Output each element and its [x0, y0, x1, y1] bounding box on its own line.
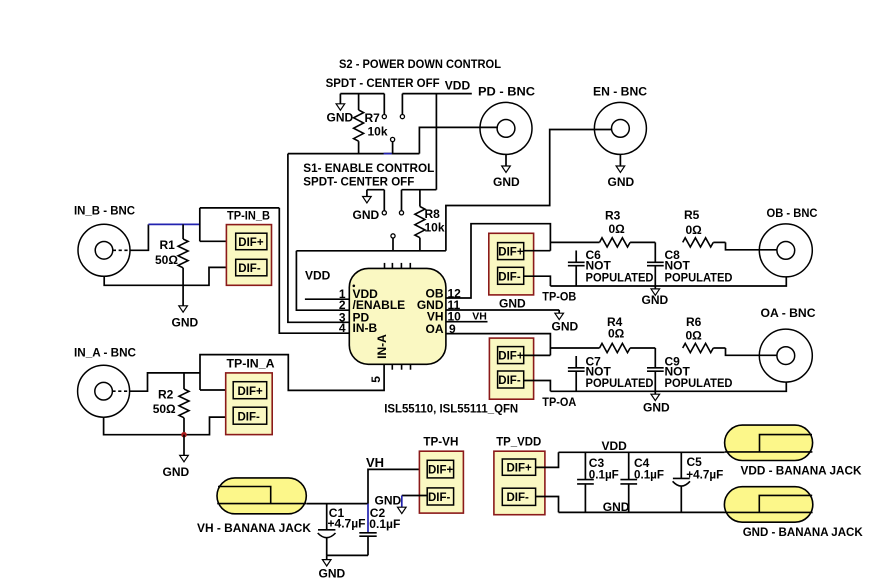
wire IN_A bottom return — [104, 417, 234, 435]
svg-text:OB - BNC: OB - BNC — [767, 206, 818, 220]
resistor R2 — [153, 373, 189, 435]
svg-text:10k: 10k — [368, 124, 388, 138]
wire pin9 OA — [446, 334, 551, 356]
svg-text:R7: R7 — [365, 111, 381, 125]
svg-text:R2: R2 — [158, 387, 174, 401]
svg-text:TP_VDD: TP_VDD — [496, 437, 541, 449]
svg-text:OA - BNC: OA - BNC — [761, 306, 816, 320]
svg-text:DIF-: DIF- — [238, 263, 261, 275]
svg-text:0Ω: 0Ω — [686, 223, 703, 237]
resistor R5 — [683, 208, 726, 247]
svg-text:VDD: VDD — [445, 79, 471, 93]
wire DIF- link (TP-OB) — [524, 276, 551, 286]
wire OB bottom return — [550, 277, 786, 286]
wire PD net horizontal — [288, 153, 420, 155]
wire IN_B center dashed — [113, 249, 130, 251]
resistor R4 — [550, 315, 655, 353]
switch S2 — [382, 94, 404, 154]
svg-text:S2 - POWER DOWN CONTROL: S2 - POWER DOWN CONTROL — [339, 57, 501, 71]
capacitor C6 — [568, 248, 654, 286]
svg-text:5: 5 — [369, 376, 383, 383]
svg-text:R1: R1 — [160, 238, 176, 252]
wire DIF+ link (TP_VDD) — [536, 452, 559, 467]
resistor R3 — [550, 209, 655, 247]
svg-text:IN-A: IN-A — [375, 334, 389, 359]
capacitor C9 — [647, 348, 733, 391]
svg-text:DIF+: DIF+ — [498, 247, 524, 259]
testpoint TP-VH — [419, 436, 463, 513]
svg-text:EN - BNC: EN - BNC — [593, 85, 647, 99]
wire pin12 OB loop — [446, 224, 551, 298]
svg-text:GND: GND — [642, 293, 669, 307]
svg-text:GND: GND — [163, 465, 190, 479]
svg-text:IN_B - BNC: IN_B - BNC — [74, 204, 135, 218]
svg-text:DIF-: DIF- — [507, 492, 530, 504]
svg-text:R5: R5 — [684, 208, 700, 222]
svg-text:DIF+: DIF+ — [507, 463, 533, 475]
wire IN_B top link — [200, 207, 279, 209]
capacitor C3 — [577, 452, 619, 512]
ground TP-VH DIF- — [375, 493, 407, 513]
svg-text:DIF-: DIF- — [428, 492, 451, 504]
ground EN BNC — [608, 154, 635, 189]
svg-text:DIF-: DIF- — [498, 375, 521, 387]
svg-text:DIF+: DIF+ — [238, 386, 264, 398]
svg-text:POPULATED: POPULATED — [665, 270, 733, 284]
wire R5 to OB BNC — [726, 242, 778, 249]
junction node IN_A — [181, 432, 187, 438]
svg-text:GND: GND — [327, 111, 354, 125]
ground C9 — [643, 391, 670, 414]
svg-text:0Ω: 0Ω — [609, 222, 626, 236]
wire DIF+ link (TP-OA) — [524, 354, 551, 356]
wire pin2 ENABLE — [296, 251, 349, 310]
op-amp U1 ISL55110 body — [349, 268, 446, 364]
wire GND rail (bottom) — [559, 511, 725, 513]
svg-text:GND: GND — [499, 296, 526, 310]
pin ticks bottom of U1 — [392, 364, 410, 369]
resistor R6 — [683, 315, 726, 353]
svg-text:GND: GND — [603, 500, 630, 514]
svg-text:0Ω: 0Ω — [686, 329, 703, 343]
wire pin3 PD — [288, 154, 349, 323]
ground IN_A — [163, 435, 190, 479]
wire pin4 IN-B — [279, 208, 349, 333]
resistor R1 — [155, 224, 188, 285]
connector EN - BNC — [593, 85, 647, 155]
svg-text:TP-IN_B: TP-IN_B — [227, 210, 270, 222]
wire pin10 VH stub — [446, 321, 488, 323]
svg-text:VH - BANANA JACK: VH - BANANA JACK — [197, 521, 311, 535]
svg-text:ISL55110, ISL55111_QFN: ISL55110, ISL55111_QFN — [384, 401, 518, 415]
svg-text:GND - BANANA JACK: GND - BANANA JACK — [743, 525, 863, 539]
wire DIF+ link (TP-IN_A) — [200, 389, 233, 391]
testpoint TP-OB — [489, 233, 577, 303]
wire EN net — [446, 130, 612, 251]
resistor R8 — [415, 190, 445, 251]
wire PD to BNC — [419, 127, 498, 153]
ground pin11 arrow — [552, 310, 579, 333]
ground PD BNC — [493, 154, 520, 189]
wire R6 to OA BNC — [726, 348, 778, 355]
svg-text:GND: GND — [319, 567, 346, 581]
svg-text:GND: GND — [375, 493, 402, 507]
svg-text:IN-B: IN-B — [353, 321, 378, 335]
testpoint TP_VDD — [494, 437, 545, 515]
capacitor C7 — [568, 354, 654, 391]
ground C1 C2 — [319, 555, 346, 580]
svg-text:TP-VH: TP-VH — [423, 436, 458, 448]
svg-text:VDD: VDD — [602, 439, 628, 453]
wire pin11 GND stub — [446, 309, 559, 311]
wire IN_B node vertical — [199, 208, 201, 241]
svg-text:R6: R6 — [686, 315, 702, 329]
wire DIF+ link (TP-OB) — [524, 250, 551, 252]
svg-text:TP-IN_A: TP-IN_A — [227, 359, 275, 371]
svg-text:0Ω: 0Ω — [608, 327, 625, 341]
banana jack VH — [197, 478, 311, 535]
svg-text:SPDT - CENTER OFF: SPDT - CENTER OFF — [326, 76, 440, 90]
svg-text:10k: 10k — [425, 221, 445, 235]
svg-text:POPULATED: POPULATED — [586, 376, 654, 390]
svg-text:VDD: VDD — [305, 269, 331, 283]
wire DIF+ link (TP-IN_B) — [200, 240, 236, 242]
wire blue tick on PD net — [384, 153, 392, 155]
svg-text:DIF+: DIF+ — [238, 237, 264, 249]
wire GND bus of S2 — [340, 93, 384, 95]
svg-text:DIF+: DIF+ — [498, 351, 524, 363]
capacitor C1 polarized — [318, 504, 366, 556]
ground IN_B — [172, 285, 199, 329]
svg-text:0.1µF: 0.1µF — [634, 467, 664, 481]
svg-text:DIF-: DIF- — [498, 271, 521, 283]
wire ENABLE bus — [296, 250, 446, 252]
banana jack GND — [724, 487, 863, 539]
connector OB - BNC — [759, 206, 818, 277]
ground S1 — [353, 190, 385, 222]
capacitor C8 — [647, 242, 733, 286]
connector IN_B - BNC — [74, 204, 135, 277]
svg-text:S1- ENABLE CONTROL: S1- ENABLE CONTROL — [303, 161, 434, 175]
capacitor C2 — [359, 504, 400, 556]
connector OA - BNC — [759, 306, 816, 382]
svg-text:R3: R3 — [605, 209, 621, 223]
wire IN_A to node — [130, 373, 200, 391]
wire C1-C2 bottom — [327, 554, 368, 556]
banana jack VDD — [725, 425, 862, 477]
wire DIF- link (TP_VDD) — [536, 497, 559, 513]
wire IN_B bottom return — [104, 267, 236, 285]
svg-text:OA: OA — [426, 322, 444, 336]
svg-text:GND: GND — [172, 315, 199, 329]
svg-text:DIF-: DIF- — [238, 411, 261, 423]
capacitor C4 — [620, 452, 664, 512]
svg-text:DIF+: DIF+ — [428, 465, 454, 477]
svg-text:R8: R8 — [425, 207, 441, 221]
svg-text:PD - BNC: PD - BNC — [478, 85, 535, 99]
wire pin5 IN-A — [200, 355, 384, 391]
svg-text:0.1µF: 0.1µF — [369, 517, 400, 531]
svg-text:VDD - BANANA JACK: VDD - BANANA JACK — [741, 463, 862, 477]
svg-text:IN_A - BNC: IN_A - BNC — [74, 346, 136, 360]
testpoint TP-IN_B — [226, 210, 271, 285]
connector IN_A - BNC — [74, 346, 136, 418]
svg-text:TP-OA: TP-OA — [542, 397, 576, 409]
svg-text:GND: GND — [552, 319, 579, 333]
wire IN_A center dashed — [112, 390, 129, 392]
pin ticks top of U1 — [385, 263, 411, 269]
wire VDD stub to S2 — [402, 93, 471, 95]
svg-text:VH: VH — [472, 311, 487, 323]
connector PD - BNC — [478, 85, 535, 155]
svg-text:GND: GND — [493, 175, 520, 189]
testpoint TP-IN_A — [226, 359, 275, 435]
svg-text:POPULATED: POPULATED — [586, 270, 654, 284]
resistor R7 — [354, 94, 388, 154]
wire IN_B to node — [130, 224, 149, 250]
wire OA bottom return — [550, 382, 786, 391]
wire VDD rail (bottom) — [559, 451, 725, 453]
svg-text:VH: VH — [366, 455, 384, 470]
ground S2 — [327, 94, 354, 125]
svg-text:50Ω: 50Ω — [155, 253, 178, 267]
wire VH jack out — [306, 503, 368, 505]
wire VH to TP-VH — [368, 469, 427, 503]
wire DIF- link (TP-VH) — [402, 495, 427, 497]
svg-text:GND: GND — [608, 175, 635, 189]
wire pin1 VDD stub — [305, 298, 349, 300]
testpoint TP-OA — [489, 338, 576, 409]
svg-text:+4.7µF: +4.7µF — [686, 467, 723, 481]
ground C8 — [642, 286, 669, 307]
switch S1 — [382, 190, 403, 251]
svg-text:GND: GND — [353, 208, 380, 222]
svg-text:+4.7µF: +4.7µF — [328, 517, 366, 531]
svg-text:GND: GND — [643, 401, 670, 415]
wire VDD rail down — [435, 94, 437, 190]
capacitor C5 polarized — [673, 452, 724, 512]
wire IN_B blue segment — [148, 223, 199, 225]
svg-text:50Ω: 50Ω — [153, 402, 176, 416]
wire DIF- link (TP-OA) — [524, 381, 551, 392]
wire R8 top bar — [402, 189, 437, 191]
svg-text:POPULATED: POPULATED — [665, 376, 733, 390]
svg-text:SPDT- CENTER OFF: SPDT- CENTER OFF — [303, 175, 414, 189]
svg-text:0.1µF: 0.1µF — [589, 467, 619, 481]
svg-text:TP-OB: TP-OB — [542, 292, 576, 304]
